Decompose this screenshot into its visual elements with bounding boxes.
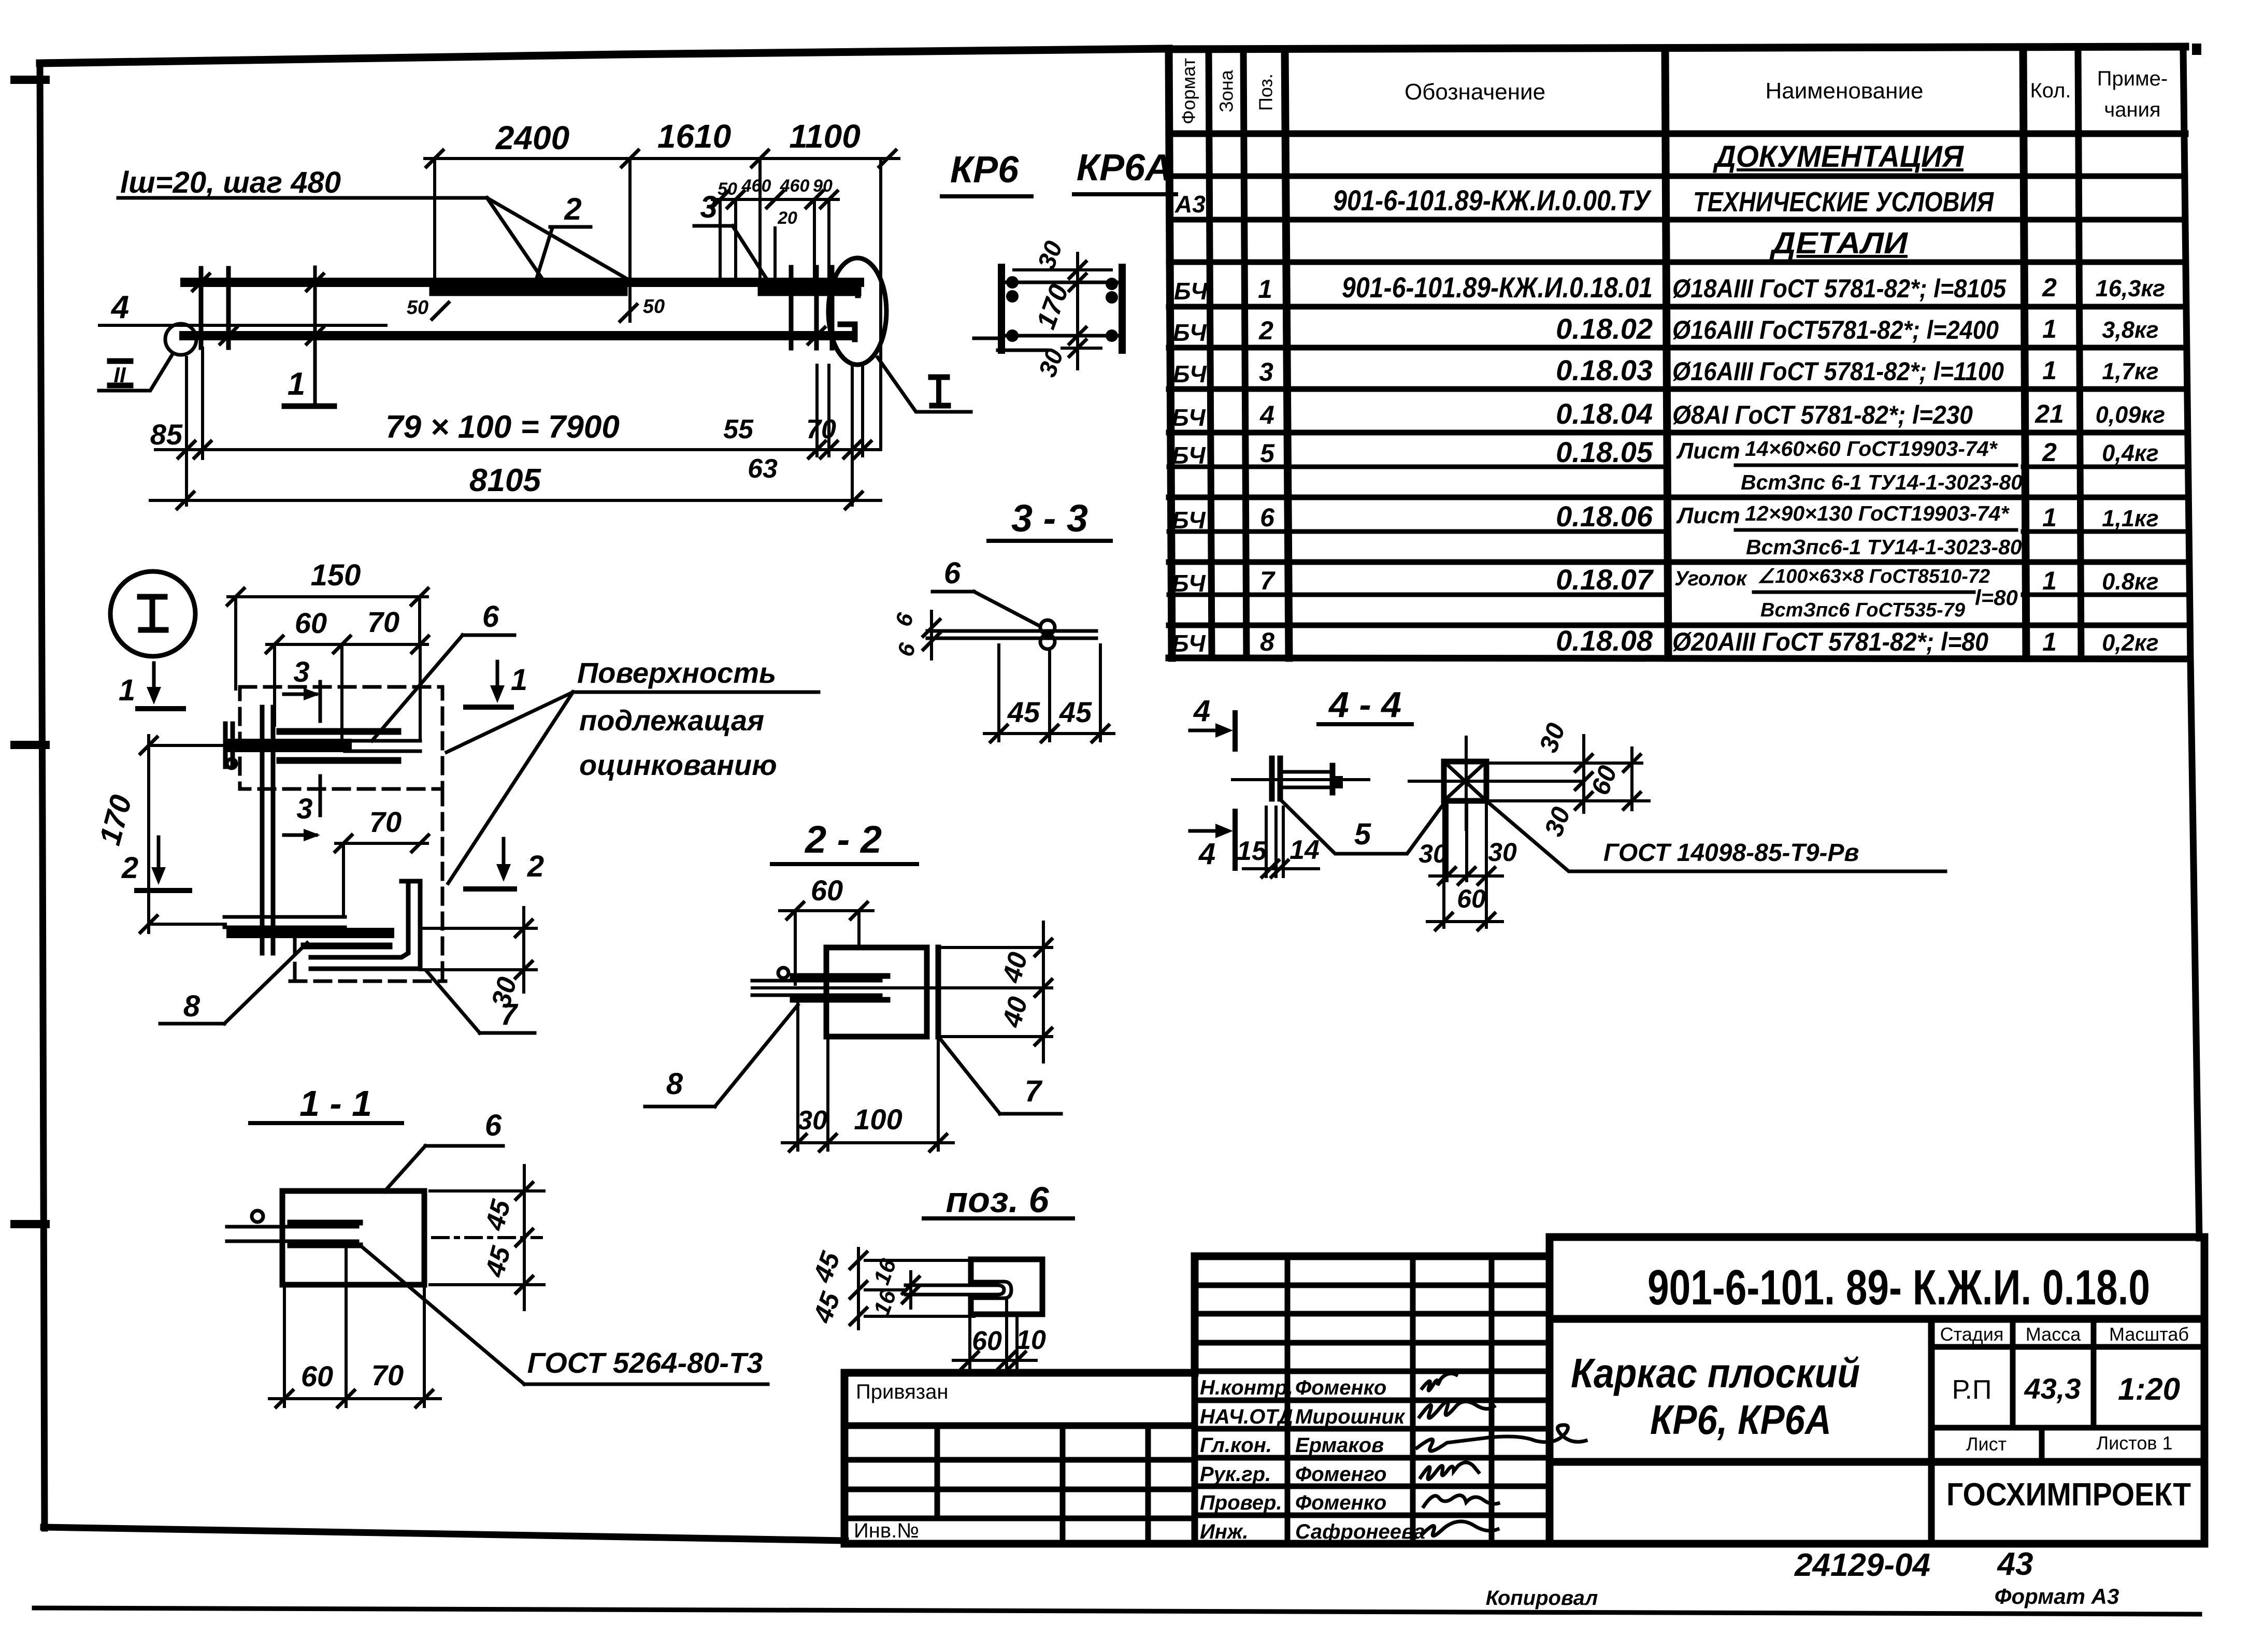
svg-text:Привязан: Привязан [856,1381,948,1403]
svg-text:50: 50 [643,296,665,318]
svg-text:КР6А: КР6А [1077,147,1172,189]
svg-text:50: 50 [407,297,428,319]
svg-text:Формат: Формат [1178,58,1199,124]
svg-text:0,2кг: 0,2кг [2102,629,2158,656]
svg-text:8: 8 [1260,627,1274,656]
svg-text:∠100×63×8 ГоСТ8510-72: ∠100×63×8 ГоСТ8510-72 [1757,566,1990,587]
svg-text:7: 7 [1025,1074,1043,1108]
svg-text:14×60×60 ГоСТ19903-74*: 14×60×60 ГоСТ19903-74* [1745,437,1998,461]
svg-text:0.18.07: 0.18.07 [1556,563,1654,596]
svg-text:БЧ: БЧ [1173,361,1207,387]
svg-text:2: 2 [121,851,138,885]
svg-text:2: 2 [564,192,581,226]
svg-text:ВстЗпс 6-1 ТУ14-1-3023-80: ВстЗпс 6-1 ТУ14-1-3023-80 [1741,470,2023,494]
svg-text:Ø20АIII ГоСТ 5781-82*; l=80: Ø20АIII ГоСТ 5781-82*; l=80 [1672,627,1988,656]
svg-text:6: 6 [482,600,499,634]
svg-text:10: 10 [1016,1325,1046,1355]
svg-text:3: 3 [293,655,309,688]
svg-text:45: 45 [1059,696,1092,728]
svg-text:20: 20 [777,208,797,228]
svg-text:0,09кг: 0,09кг [2096,401,2165,428]
svg-text:1: 1 [288,366,305,402]
svg-text:2 - 2: 2 - 2 [804,818,882,861]
svg-text:1,1кг: 1,1кг [2102,505,2158,531]
svg-text:КР6, КР6А: КР6, КР6А [1650,1397,1831,1443]
svg-text:3,8кг: 3,8кг [2102,317,2158,343]
svg-text:Инв.№: Инв.№ [854,1519,919,1542]
svg-text:КР6: КР6 [950,149,1019,191]
svg-text:60: 60 [1457,884,1486,913]
svg-text:Уголок: Уголок [1674,567,1747,590]
svg-text:8: 8 [183,989,200,1023]
svg-text:БЧ: БЧ [1172,404,1206,431]
svg-text:50: 50 [718,179,737,199]
svg-text:150: 150 [311,558,361,592]
svg-text:2400: 2400 [495,119,569,156]
svg-text:0.18.05: 0.18.05 [1556,436,1653,468]
svg-text:Гл.кон.: Гл.кон. [1200,1434,1272,1457]
svg-text:Провер.: Провер. [1200,1491,1282,1514]
svg-text:Н.контр.: Н.контр. [1200,1376,1293,1399]
svg-text:0.18.02: 0.18.02 [1556,312,1653,345]
svg-text:60: 60 [972,1326,1002,1356]
svg-text:ДЕТАЛИ: ДЕТАЛИ [1769,226,1908,260]
svg-text:63: 63 [748,454,778,484]
svg-text:БЧ: БЧ [1174,278,1208,305]
svg-text:ГОСХИМПРОЕКТ: ГОСХИМПРОЕКТ [1946,1477,2191,1513]
svg-text:Лист: Лист [1966,1433,2007,1455]
svg-text:70: 70 [806,414,836,444]
svg-text:Листов 1: Листов 1 [2097,1432,2173,1454]
svg-text:15: 15 [1237,836,1267,866]
svg-text:НАЧ.ОТД: НАЧ.ОТД [1200,1405,1293,1428]
svg-text:чания: чания [2104,98,2160,121]
svg-text:70: 70 [367,606,399,638]
svg-text:1610: 1610 [657,118,731,155]
svg-text:ДОКУМЕНТАЦИЯ: ДОКУМЕНТАЦИЯ [1712,140,1965,174]
svg-text:1: 1 [2042,503,2057,532]
svg-text:3: 3 [296,792,312,825]
svg-text:ВстЗпс6-1 ТУ14-1-3023-80: ВстЗпс6-1 ТУ14-1-3023-80 [1746,535,2022,559]
svg-text:lш=20, шаг 480: lш=20, шаг 480 [120,166,341,199]
svg-text:Каркас плоский: Каркас плоский [1571,1350,1860,1396]
svg-text:3 - 3: 3 - 3 [1011,497,1088,540]
svg-text:55: 55 [723,414,754,444]
svg-text:460: 460 [741,176,771,196]
svg-text:Масштаб: Масштаб [2109,1324,2189,1345]
svg-text:А3: А3 [1174,191,1206,218]
svg-text:0.18.08: 0.18.08 [1556,624,1653,657]
svg-text:8105: 8105 [469,463,541,498]
svg-text:БЧ: БЧ [1172,507,1206,534]
svg-text:43,3: 43,3 [2024,1372,2081,1405]
svg-text:1,7кг: 1,7кг [2102,358,2158,384]
svg-text:Инж.: Инж. [1200,1520,1249,1543]
svg-text:0.18.04: 0.18.04 [1556,397,1653,430]
svg-text:30: 30 [1488,838,1517,867]
svg-text:70: 70 [369,806,402,838]
svg-text:4 - 4: 4 - 4 [1328,684,1401,725]
svg-text:100: 100 [854,1103,902,1136]
svg-text:21: 21 [2034,399,2064,428]
svg-text:Мирошник: Мирошник [1295,1405,1406,1428]
svg-text:Зона: Зона [1216,69,1237,112]
svg-text:Стадия: Стадия [1940,1324,2004,1345]
svg-text:1: 1 [1258,275,1272,304]
svg-text:0.18.06: 0.18.06 [1556,500,1653,533]
svg-text:Ермаков: Ермаков [1295,1434,1384,1457]
svg-text:2: 2 [1258,316,1273,345]
svg-text:БЧ: БЧ [1172,630,1206,657]
svg-text:поз. 6: поз. 6 [945,1180,1049,1220]
svg-text:4: 4 [1198,837,1215,871]
svg-text:Масса: Масса [2026,1324,2081,1345]
svg-text:2: 2 [527,850,544,883]
svg-text:5: 5 [1260,439,1275,468]
svg-text:0.8кг: 0.8кг [2102,568,2158,595]
svg-text:Поверхность: Поверхность [577,656,776,689]
svg-text:оцинкованию: оцинкованию [579,749,777,781]
svg-text:45: 45 [1007,696,1040,728]
svg-text:Сафронеева: Сафронеева [1295,1520,1425,1543]
svg-text:85: 85 [150,418,183,451]
svg-text:1:20: 1:20 [2118,1372,2180,1406]
svg-text:Приме-: Приме- [2097,67,2168,90]
svg-text:ВстЗпс6 ГоСТ535-79: ВстЗпс6 ГоСТ535-79 [1760,599,1965,621]
svg-text:2: 2 [2042,438,2057,467]
svg-text:12×90×130 ГоСТ19903-74*: 12×90×130 ГоСТ19903-74* [1745,501,2010,525]
svg-text:6: 6 [944,556,961,590]
svg-text:Формат А3: Формат А3 [1995,1584,2119,1608]
svg-text:901-6-101.89-КЖ.И.0.00.ТУ: 901-6-101.89-КЖ.И.0.00.ТУ [1333,184,1652,217]
svg-text:3: 3 [1259,357,1273,386]
svg-text:Ø8АI ГоСТ 5781-82*; l=230: Ø8АI ГоСТ 5781-82*; l=230 [1672,400,1973,429]
svg-text:Лист: Лист [1676,438,1740,464]
svg-text:1: 1 [2042,566,2057,595]
svg-text:1100: 1100 [789,118,861,155]
svg-text:1 - 1: 1 - 1 [299,1083,372,1124]
svg-text:Поз.: Поз. [1255,74,1277,111]
svg-text:4: 4 [1259,400,1274,429]
svg-text:1: 1 [2042,627,2057,656]
svg-text:60: 60 [295,607,327,639]
svg-text:2: 2 [2042,273,2057,302]
svg-text:30: 30 [1418,839,1448,868]
svg-text:1: 1 [511,663,527,697]
svg-text:4: 4 [110,290,129,325]
svg-text:Обозначение: Обозначение [1405,79,1545,105]
svg-text:6: 6 [1260,503,1275,532]
svg-text:l=80: l=80 [1975,585,2018,610]
svg-text:Лист: Лист [1676,503,1740,528]
svg-text:0,4кг: 0,4кг [2102,440,2158,466]
svg-text:БЧ: БЧ [1172,442,1206,469]
svg-text:14: 14 [1289,835,1320,865]
svg-text:Ø18АIII ГоСТ 5781-82*; l=8105: Ø18АIII ГоСТ 5781-82*; l=8105 [1672,274,2007,303]
svg-text:БЧ: БЧ [1173,319,1207,346]
svg-text:43: 43 [1997,1546,2033,1582]
svg-text:1: 1 [119,673,135,707]
svg-text:Копировал: Копировал [1486,1587,1598,1610]
svg-text:1: 1 [2042,314,2057,343]
svg-text:Р.П: Р.П [1952,1375,1992,1405]
svg-text:4: 4 [1193,694,1210,728]
svg-text:8: 8 [666,1067,683,1101]
svg-text:подлежащая: подлежащая [579,704,764,737]
svg-text:24129-04: 24129-04 [1794,1547,1930,1583]
svg-text:30: 30 [797,1105,827,1136]
svg-text:Кол.: Кол. [2030,79,2071,102]
svg-text:70: 70 [371,1359,404,1391]
svg-text:БЧ: БЧ [1172,570,1206,597]
svg-text:ТЕХНИЧЕСКИЕ УСЛОВИЯ: ТЕХНИЧЕСКИЕ УСЛОВИЯ [1693,186,1994,218]
svg-text:ГОСТ 5264-80-Т3: ГОСТ 5264-80-Т3 [527,1346,763,1379]
svg-text:Ø16АIII ГоСТ 5781-82*; l=1100: Ø16АIII ГоСТ 5781-82*; l=1100 [1672,357,2004,386]
svg-text:5: 5 [1354,817,1371,851]
svg-text:7: 7 [500,998,519,1031]
svg-text:Ø16АIII ГоСТ5781-82*; l=2400: Ø16АIII ГоСТ5781-82*; l=2400 [1672,315,1999,344]
svg-text:7: 7 [1260,566,1276,595]
svg-text:0.18.03: 0.18.03 [1556,354,1653,386]
svg-text:Фоменго: Фоменго [1295,1463,1386,1486]
svg-text:Фоменко: Фоменко [1295,1376,1386,1399]
svg-text:79 × 100 = 7900: 79 × 100 = 7900 [385,409,620,445]
svg-text:901-6-101. 89- К.Ж.И. 0.18.0: 901-6-101. 89- К.Ж.И. 0.18.0 [1647,1260,2150,1315]
svg-text:60: 60 [811,874,843,907]
svg-text:Фоменко: Фоменко [1295,1491,1386,1514]
svg-text:16,3кг: 16,3кг [2096,275,2165,301]
svg-text:60: 60 [301,1360,333,1392]
svg-text:Рук.гр.: Рук.гр. [1200,1463,1271,1486]
svg-text:ГОСТ 14098-85-Т9-Рв: ГОСТ 14098-85-Т9-Рв [1603,839,1859,867]
svg-text:Наименование: Наименование [1765,78,1923,104]
svg-text:901-6-101.89-КЖ.И.0.18.01: 901-6-101.89-КЖ.И.0.18.01 [1342,271,1653,304]
svg-text:6: 6 [485,1109,502,1142]
svg-text:1: 1 [2042,356,2057,385]
